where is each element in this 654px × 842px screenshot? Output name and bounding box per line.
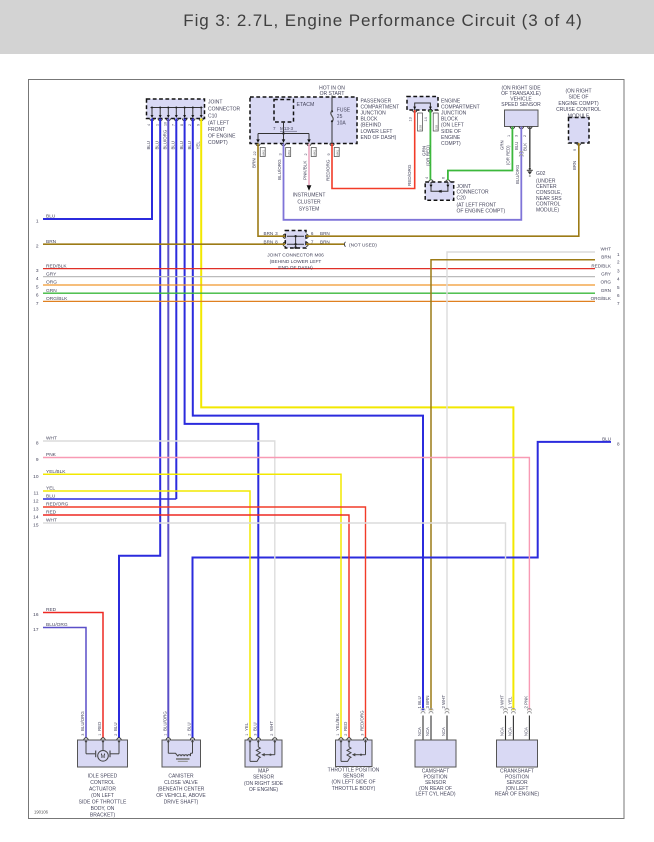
svg-text:PNK/BLK: PNK/BLK xyxy=(303,160,308,180)
svg-text:1: 1 xyxy=(164,734,168,736)
svg-text:190106: 190106 xyxy=(34,810,49,815)
svg-text:8: 8 xyxy=(617,442,620,447)
svg-text:ORG/BLK: ORG/BLK xyxy=(591,296,612,301)
svg-text:BRN: BRN xyxy=(46,239,57,245)
svg-text:BLU: BLU xyxy=(171,141,176,150)
svg-text:17: 17 xyxy=(33,627,39,633)
svg-text:(ON RIGHT: (ON RIGHT xyxy=(565,89,591,95)
svg-text:14: 14 xyxy=(33,515,39,521)
svg-text:1: 1 xyxy=(245,734,249,736)
svg-text:YEL: YEL xyxy=(46,486,55,492)
svg-text:JOINT CONNECTOR M06: JOINT CONNECTOR M06 xyxy=(267,253,324,259)
svg-text:ORG: ORG xyxy=(601,280,612,285)
svg-text:G02: G02 xyxy=(536,171,546,177)
svg-text:3: 3 xyxy=(278,153,282,155)
svg-text:5: 5 xyxy=(36,285,39,291)
svg-text:IDLE SPEED: IDLE SPEED xyxy=(88,774,118,780)
svg-text:10A: 10A xyxy=(337,120,347,126)
svg-text:THROTTLE BODY): THROTTLE BODY) xyxy=(332,786,376,792)
svg-text:(ON LEFT SIDE OF: (ON LEFT SIDE OF xyxy=(331,780,375,786)
svg-text:ORG: ORG xyxy=(46,280,57,286)
svg-text:(AT LEFT FRONT: (AT LEFT FRONT xyxy=(457,202,497,208)
svg-text:2: 2 xyxy=(304,153,308,155)
svg-text:10: 10 xyxy=(164,122,168,126)
svg-text:BLU: BLU xyxy=(46,214,56,220)
svg-text:11: 11 xyxy=(34,491,39,497)
svg-text:22: 22 xyxy=(253,151,257,155)
svg-text:REAR OF ENGINE): REAR OF ENGINE) xyxy=(495,792,540,798)
svg-text:COMPT): COMPT) xyxy=(208,140,228,146)
svg-text:BRN: BRN xyxy=(601,254,611,259)
svg-text:CONNECTOR: CONNECTOR xyxy=(208,107,241,113)
svg-text:2: 2 xyxy=(36,244,39,250)
svg-text:14: 14 xyxy=(424,117,428,121)
svg-text:CONTROL: CONTROL xyxy=(90,780,115,786)
svg-text:6: 6 xyxy=(36,293,39,299)
svg-text:2 WHT: 2 WHT xyxy=(441,695,446,709)
svg-text:RED/ORG: RED/ORG xyxy=(360,710,365,731)
svg-text:GRN: GRN xyxy=(601,288,611,293)
svg-text:NCA: NCA xyxy=(441,727,446,736)
svg-text:(ON RIGHT SIDE: (ON RIGHT SIDE xyxy=(244,781,284,787)
svg-text:BLU/ORG: BLU/ORG xyxy=(163,129,168,149)
svg-text:1: 1 xyxy=(36,219,39,225)
svg-text:3: 3 xyxy=(361,734,365,736)
svg-text:CRUISE CONTROL: CRUISE CONTROL xyxy=(556,107,601,113)
svg-text:(BEHIND LOWER LEFT: (BEHIND LOWER LEFT xyxy=(270,259,322,265)
svg-text:WHT: WHT xyxy=(269,721,274,731)
svg-text:LEFT CYL HEAD): LEFT CYL HEAD) xyxy=(415,792,455,798)
svg-text:4: 4 xyxy=(617,276,620,281)
svg-text:BLU: BLU xyxy=(154,141,159,150)
svg-text:7: 7 xyxy=(311,239,314,244)
svg-text:ENGINE COMPT): ENGINE COMPT) xyxy=(558,101,599,107)
svg-text:4: 4 xyxy=(147,124,151,126)
svg-text:RED: RED xyxy=(46,607,57,613)
svg-text:4: 4 xyxy=(425,177,429,179)
svg-text:C10: C10 xyxy=(208,114,217,120)
svg-text:2: 2 xyxy=(617,260,620,265)
svg-text:3: 3 xyxy=(617,268,620,273)
svg-text:9: 9 xyxy=(327,153,331,155)
svg-text:PNK: PNK xyxy=(46,452,57,458)
svg-text:SYSTEM: SYSTEM xyxy=(299,206,320,212)
svg-text:2: 2 xyxy=(188,124,192,126)
svg-text:M41: M41 xyxy=(312,150,316,156)
svg-text:2: 2 xyxy=(523,135,527,137)
svg-text:EJB: EJB xyxy=(419,125,423,130)
svg-text:8: 8 xyxy=(275,239,278,244)
svg-text:7: 7 xyxy=(273,126,276,131)
svg-text:COMPT): COMPT) xyxy=(441,141,461,147)
svg-text:RED: RED xyxy=(46,510,57,516)
svg-text:ETACM: ETACM xyxy=(297,102,315,108)
svg-text:1: 1 xyxy=(507,135,511,137)
svg-text:3: 3 xyxy=(275,231,278,236)
svg-text:8: 8 xyxy=(180,124,184,126)
svg-text:3: 3 xyxy=(514,135,518,137)
svg-text:OF ENGINE COMPT): OF ENGINE COMPT) xyxy=(457,209,506,215)
svg-text:GRY: GRY xyxy=(601,271,611,276)
svg-text:OF VEHICLE, ABOVE: OF VEHICLE, ABOVE xyxy=(156,793,206,799)
svg-text:BLU/ORG: BLU/ORG xyxy=(46,622,68,628)
svg-text:YEL/BLK: YEL/BLK xyxy=(46,469,66,475)
svg-text:M41: M41 xyxy=(335,150,339,156)
svg-text:MODULE: MODULE xyxy=(568,113,590,119)
svg-text:1: 1 xyxy=(336,734,340,736)
svg-text:SPEED SENSOR: SPEED SENSOR xyxy=(501,102,541,108)
svg-text:(BENEATH CENTER: (BENEATH CENTER xyxy=(158,787,205,793)
svg-text:BRN: BRN xyxy=(252,158,257,168)
svg-text:BRN: BRN xyxy=(264,231,274,236)
svg-text:BLU/ORG: BLU/ORG xyxy=(277,159,282,180)
svg-text:OF ENGINE): OF ENGINE) xyxy=(249,787,279,793)
svg-text:7: 7 xyxy=(36,301,39,307)
svg-text:RED: RED xyxy=(97,722,102,731)
svg-text:C20: C20 xyxy=(457,195,466,201)
svg-text:EJB: EJB xyxy=(434,125,438,130)
svg-text:2: 2 xyxy=(114,734,118,736)
svg-text:6: 6 xyxy=(617,293,620,298)
svg-text:GRY: GRY xyxy=(46,271,57,277)
svg-text:BLU: BLU xyxy=(602,437,611,442)
svg-text:MAP: MAP xyxy=(258,769,270,775)
svg-text:RED/ORG: RED/ORG xyxy=(407,164,412,186)
svg-text:BLU: BLU xyxy=(187,141,192,150)
svg-text:NCA: NCA xyxy=(500,727,505,736)
svg-text:6: 6 xyxy=(311,231,314,236)
svg-text:YEL: YEL xyxy=(244,722,249,731)
svg-text:NCA: NCA xyxy=(508,727,513,736)
svg-text:9: 9 xyxy=(573,149,577,151)
svg-text:3 BRN: 3 BRN xyxy=(425,696,430,709)
svg-text:FUSE: FUSE xyxy=(337,107,351,113)
svg-text:M41: M41 xyxy=(287,150,291,156)
svg-text:ACTUATOR: ACTUATOR xyxy=(89,787,116,793)
svg-text:15: 15 xyxy=(33,523,39,529)
svg-text:BRN: BRN xyxy=(264,239,274,244)
svg-text:M41: M41 xyxy=(261,150,265,156)
svg-text:3: 3 xyxy=(36,268,39,274)
svg-text:1: 1 xyxy=(98,734,102,736)
svg-text:END OF DASH): END OF DASH) xyxy=(278,265,313,271)
svg-text:3: 3 xyxy=(81,734,85,736)
svg-text:NCA: NCA xyxy=(524,727,529,736)
svg-text:M13-3: M13-3 xyxy=(280,126,293,131)
svg-text:THROTTLE POSITION: THROTTLE POSITION xyxy=(328,767,380,773)
svg-text:NCA: NCA xyxy=(417,727,422,736)
svg-text:BLU: BLU xyxy=(46,494,56,500)
svg-text:2: 2 xyxy=(188,734,192,736)
svg-text:GRN: GRN xyxy=(500,140,505,150)
svg-text:(OR RED): (OR RED) xyxy=(426,145,431,166)
svg-text:(ON LEFT: (ON LEFT xyxy=(91,793,114,799)
svg-text:3 WHT: 3 WHT xyxy=(500,695,505,709)
svg-text:BLU: BLU xyxy=(113,722,118,731)
svg-text:4: 4 xyxy=(36,276,39,282)
svg-text:7: 7 xyxy=(172,124,176,126)
svg-text:MODULE): MODULE) xyxy=(536,208,559,214)
svg-text:WHT: WHT xyxy=(46,518,57,524)
svg-text:RED: RED xyxy=(343,722,348,731)
svg-text:RED/ORG: RED/ORG xyxy=(326,159,331,181)
svg-text:5: 5 xyxy=(617,285,620,290)
svg-text:WHT: WHT xyxy=(46,436,57,442)
svg-text:16: 16 xyxy=(33,612,39,618)
svg-text:BLU: BLU xyxy=(146,141,151,150)
svg-text:BLU/ORG: BLU/ORG xyxy=(163,711,168,731)
svg-text:YEL: YEL xyxy=(195,141,200,150)
svg-text:12: 12 xyxy=(33,499,39,505)
svg-text:RED/ORG: RED/ORG xyxy=(46,502,69,508)
svg-text:2: 2 xyxy=(344,734,348,736)
svg-text:RED/BLK: RED/BLK xyxy=(591,263,612,268)
svg-text:2: 2 xyxy=(270,734,274,736)
svg-text:10: 10 xyxy=(33,474,39,480)
svg-text:OR START: OR START xyxy=(320,91,345,97)
svg-text:1 YEL: 1 YEL xyxy=(508,696,513,708)
svg-text:BLU: BLU xyxy=(187,722,192,731)
svg-text:6: 6 xyxy=(442,177,446,179)
svg-text:CLUSTER: CLUSTER xyxy=(297,199,321,205)
svg-text:CANISTER: CANISTER xyxy=(168,774,194,780)
svg-text:3: 3 xyxy=(254,734,258,736)
svg-text:SIDE OF THROTTLE: SIDE OF THROTTLE xyxy=(79,800,127,806)
svg-text:ORG/BLK: ORG/BLK xyxy=(46,296,68,302)
svg-text:END OF DASH): END OF DASH) xyxy=(361,135,397,141)
svg-text:BLU/ORG: BLU/ORG xyxy=(515,164,520,184)
svg-text:DRIVE SHAFT): DRIVE SHAFT) xyxy=(164,800,199,806)
svg-text:(NOT USED): (NOT USED) xyxy=(349,242,377,248)
svg-text:2 PNK: 2 PNK xyxy=(524,696,529,709)
svg-text:BLU: BLU xyxy=(253,722,258,731)
svg-text:BLU: BLU xyxy=(179,141,184,150)
svg-text:WHT: WHT xyxy=(601,247,612,252)
svg-text:1 BLU: 1 BLU xyxy=(417,696,422,708)
svg-text:1: 1 xyxy=(617,252,620,257)
svg-text:9: 9 xyxy=(36,457,39,463)
svg-text:25: 25 xyxy=(337,114,343,120)
svg-text:OF ENGINE: OF ENGINE xyxy=(208,134,236,140)
svg-text:8: 8 xyxy=(36,441,39,447)
svg-text:BODY, ON: BODY, ON xyxy=(91,806,115,812)
svg-text:INSTRUMENT: INSTRUMENT xyxy=(293,193,326,199)
svg-text:(AT LEFT: (AT LEFT xyxy=(208,121,229,127)
svg-text:(OR RED): (OR RED) xyxy=(506,145,511,165)
svg-text:BLU/ORG: BLU/ORG xyxy=(80,711,85,731)
svg-text:SENSOR: SENSOR xyxy=(343,773,365,779)
svg-text:BRN: BRN xyxy=(572,161,577,170)
svg-text:CLOSE VALVE: CLOSE VALVE xyxy=(164,780,198,786)
svg-text:BRACKET): BRACKET) xyxy=(90,813,116,819)
svg-text:SIDE OF: SIDE OF xyxy=(568,95,588,101)
svg-text:1: 1 xyxy=(155,124,159,126)
svg-text:RED/BLK: RED/BLK xyxy=(46,263,67,269)
svg-text:BLU: BLU xyxy=(514,142,519,150)
svg-text:7: 7 xyxy=(617,301,620,306)
svg-text:9: 9 xyxy=(196,124,200,126)
svg-text:BLK: BLK xyxy=(523,143,528,151)
svg-text:JOINT: JOINT xyxy=(208,100,222,106)
svg-text:M: M xyxy=(101,754,106,760)
svg-text:13: 13 xyxy=(409,117,413,121)
svg-text:13: 13 xyxy=(33,507,39,513)
svg-text:SENSOR: SENSOR xyxy=(253,775,275,781)
svg-text:YEL/BLK: YEL/BLK xyxy=(335,713,340,731)
svg-text:FRONT: FRONT xyxy=(208,127,225,133)
svg-text:GRN: GRN xyxy=(46,288,57,294)
svg-text:BRN: BRN xyxy=(320,231,330,236)
svg-text:NCA: NCA xyxy=(425,727,430,736)
svg-text:BRN: BRN xyxy=(320,239,330,244)
